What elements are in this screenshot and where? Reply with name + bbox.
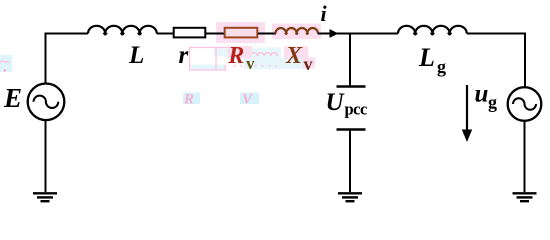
- svg-text:u: u: [475, 81, 489, 108]
- resistor r: [174, 28, 206, 38]
- wire: E to left ground: [45, 120, 47, 192]
- inductor Xv (virtual reactance): [276, 28, 318, 34]
- svg-text:R: R: [227, 43, 244, 69]
- wire: ug to right ground: [524, 121, 526, 192]
- artifact: pink highlight patch behind Rv: [216, 22, 265, 43]
- resistor Rv (virtual resistance): [225, 28, 258, 38]
- label ug: [475, 81, 498, 113]
- svg-text:L: L: [418, 43, 435, 72]
- svg-text:g: g: [488, 92, 497, 112]
- wire: L to r: [157, 33, 173, 35]
- svg-text:r: r: [179, 42, 189, 69]
- artifact: pink highlight behind Xv label: [284, 46, 315, 68]
- inductor L: [88, 26, 157, 35]
- label Lg: [418, 43, 446, 77]
- wire: E top corner to inductor L: [46, 34, 89, 85]
- svg-text:R: R: [183, 92, 194, 108]
- wire: Lg to ug corner: [467, 34, 525, 89]
- wire: Rv to Xv: [258, 33, 276, 35]
- capacitor Upcc bottom plate: [337, 128, 366, 130]
- artifact: ghost resistor outline below r: [190, 48, 231, 71]
- wire: node to Lg: [350, 33, 398, 35]
- artifact: ghost letter V: [240, 92, 259, 108]
- inductor Lg: [398, 26, 467, 35]
- wire: capacitor to middle ground: [349, 130, 351, 193]
- capacitor Upcc top plate: [337, 85, 366, 87]
- label Upcc: [326, 89, 368, 119]
- source ug (AC source circle): [508, 87, 542, 121]
- ground (middle): [338, 193, 362, 201]
- svg-text:U: U: [326, 89, 346, 116]
- arrowhead of current i: [330, 29, 339, 38]
- artifact: ghost coil squiggle below Rv-Xv: [234, 48, 310, 70]
- label Rv: [227, 43, 255, 73]
- svg-text:X: X: [285, 43, 303, 69]
- svg-text:pcc: pcc: [345, 100, 368, 119]
- svg-text:v: v: [246, 54, 255, 73]
- ground (left): [33, 193, 57, 201]
- wire: node down to capacitor: [349, 33, 351, 87]
- wire: r to Rv: [206, 33, 224, 35]
- svg-text:L: L: [128, 42, 144, 69]
- arrow ug (voltage direction): [462, 85, 472, 142]
- artifact: ghost letter R: [183, 92, 200, 108]
- ground (right): [513, 193, 537, 201]
- wire: Xv to node (current i path): [318, 33, 350, 35]
- artifact: ghost coil fragment at left edge: [0, 55, 12, 72]
- source E (AC source circle): [28, 84, 65, 121]
- label Xv: [285, 43, 313, 74]
- svg-text:g: g: [437, 57, 446, 77]
- artifact: pink highlight behind Rv label: [228, 46, 253, 58]
- artifact: pink highlight patch behind Xv: [272, 24, 321, 40]
- svg-text:i: i: [321, 1, 328, 26]
- svg-text:v: v: [304, 54, 313, 74]
- svg-text:E: E: [3, 83, 22, 113]
